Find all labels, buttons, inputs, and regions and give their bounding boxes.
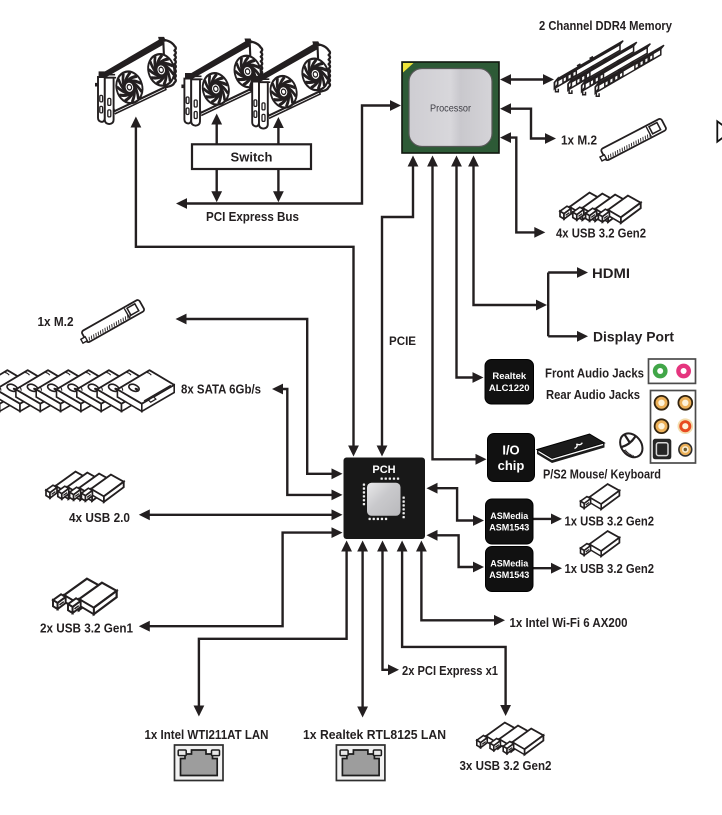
svg-text:chip: chip <box>498 458 525 473</box>
GPU card 2 (graphics card with two fans) <box>181 39 264 126</box>
Realtek ALC1220 chip <box>485 360 534 405</box>
DDR4 DIMM 2 <box>568 42 637 93</box>
HDMI label <box>592 265 630 281</box>
ASMedia ASM1543 chip 2 <box>486 547 534 592</box>
8x SATA 6Gb/s label <box>181 383 261 397</box>
svg-text:Display Port: Display Port <box>593 329 674 345</box>
processor pin1 yellow corner marker <box>403 63 414 73</box>
wire processor to Realtek ALC1220 <box>451 156 483 383</box>
3x USB 3.2 Gen2 label <box>460 759 552 773</box>
wire PCH to ASMedia 1 <box>427 483 485 526</box>
1x M.2 left label <box>38 315 74 329</box>
1x Intel WTI211AT LAN label <box>145 728 269 742</box>
wire PCH to Wi-Fi <box>416 541 505 626</box>
4x USB 2.0 sticks <box>46 472 124 502</box>
svg-text:Switch: Switch <box>231 150 273 165</box>
wire SATA to PCH <box>272 384 343 501</box>
2x PCI Express x1 label <box>402 664 498 678</box>
1x M.2 right label <box>561 134 597 148</box>
1x Intel Wi-Fi 6 AX200 label <box>510 616 628 630</box>
wire HDMI DP bracket vertical <box>547 273 549 337</box>
8x SATA drives stack <box>0 370 174 411</box>
wire ASMedia1 to 1x USB 3.2 Gen2 <box>534 514 563 525</box>
DDR4 DIMM 4 (front) <box>595 45 664 96</box>
wire to HDMI (arrow) <box>548 267 588 278</box>
svg-text:1x USB 3.2 Gen2: 1x USB 3.2 Gen2 <box>565 515 655 529</box>
svg-text:Processor: Processor <box>430 103 471 115</box>
wire GPU1 to PCH top pin1 <box>131 117 359 457</box>
M.2 SSD left drawing <box>78 299 145 345</box>
wire to Display Port (arrow) <box>548 331 588 342</box>
wire PCH to 2x PCI Express x1 <box>377 541 399 676</box>
Realtek LAN port icon <box>336 745 385 781</box>
wire processor to HDMI/DP junction <box>468 156 547 311</box>
PCH label <box>372 464 395 476</box>
svg-text:1x Realtek RTL8125 LAN: 1x Realtek RTL8125 LAN <box>303 728 446 742</box>
svg-text:1x Intel WTI211AT LAN: 1x Intel WTI211AT LAN <box>145 728 269 742</box>
front audio jacks panel <box>649 359 696 383</box>
PS2 mouse drawing <box>615 429 647 462</box>
wire PCH to Intel LAN <box>194 541 353 717</box>
PCH chip block <box>344 458 426 540</box>
GPU card 3 (graphics card with two fans) <box>249 41 332 128</box>
2x USB 3.2 Gen1 label <box>40 622 133 636</box>
ASMedia ASM1543 chip 1 <box>486 499 534 544</box>
wire processor to DDR4 memory (double arrow) <box>500 74 554 85</box>
PCI Express Bus label <box>206 210 299 224</box>
svg-text:ASMedia: ASMedia <box>490 511 529 521</box>
svg-text:3x USB 3.2 Gen2: 3x USB 3.2 Gen2 <box>460 759 552 773</box>
svg-text:I/O: I/O <box>502 442 519 457</box>
4x USB 3.2 Gen2 sticks <box>560 193 641 223</box>
svg-text:P/S2 Mouse/ Keyboard: P/S2 Mouse/ Keyboard <box>543 468 661 482</box>
wire 2x USB 3.2 Gen1 to PCH <box>139 527 343 631</box>
1x USB 3.2 Gen2 stick upper <box>581 484 620 509</box>
1x USB 3.2 Gen2 upper label <box>565 515 655 529</box>
svg-text:8x SATA 6Gb/s: 8x SATA 6Gb/s <box>181 383 261 397</box>
svg-text:1x M.2: 1x M.2 <box>561 134 597 148</box>
P/S2 Mouse/ Keyboard label <box>543 468 661 482</box>
svg-text:1x Intel Wi-Fi 6 AX200: 1x Intel Wi-Fi 6 AX200 <box>510 616 628 630</box>
1x Realtek RTL8125 LAN label <box>303 728 446 742</box>
svg-text:Front Audio Jacks: Front Audio Jacks <box>545 367 644 381</box>
Intel LAN port icon <box>175 745 224 781</box>
wire M.2 left to PCH <box>176 314 343 480</box>
rear audio jacks panel <box>651 391 696 464</box>
DDR4 DIMM 3 <box>582 44 651 95</box>
cursor triangle marker at right edge <box>717 121 722 141</box>
svg-text:HDMI: HDMI <box>592 265 630 281</box>
I/O chip <box>488 434 535 482</box>
Processor label <box>430 103 471 115</box>
svg-text:ASMedia: ASMedia <box>490 558 529 568</box>
svg-text:PCIE: PCIE <box>389 334 416 348</box>
4x USB 2.0 label <box>69 511 130 525</box>
svg-text:PCH: PCH <box>372 464 395 476</box>
processor outer green package <box>402 62 499 153</box>
svg-text:Realtek: Realtek <box>492 371 527 382</box>
wire 4x USB 2.0 to PCH <box>139 509 343 520</box>
Switch box <box>192 144 311 169</box>
svg-text:Rear Audio Jacks: Rear Audio Jacks <box>546 388 640 402</box>
Display Port label <box>593 329 674 345</box>
1x USB 3.2 Gen2 stick lower <box>581 531 620 556</box>
wire processor to M.2 right <box>500 103 556 144</box>
svg-text:2 Channel DDR4 Memory: 2 Channel DDR4 Memory <box>539 18 673 33</box>
wire switch to GPU3 (up arrow) <box>273 117 284 144</box>
wire processor to 4x USB 3.2 Gen2 <box>500 132 545 238</box>
svg-text:ASM1543: ASM1543 <box>489 570 529 580</box>
svg-text:1x USB 3.2 Gen2: 1x USB 3.2 Gen2 <box>565 562 655 576</box>
wire processor to PCH top pin2 <box>377 156 419 457</box>
2 Channel DDR4 Memory label <box>539 18 673 33</box>
3x USB 3.2 Gen2 sticks <box>477 723 544 755</box>
wire processor to I/O chip <box>427 156 486 465</box>
svg-text:4x USB 2.0: 4x USB 2.0 <box>69 511 130 525</box>
Front Audio Jacks label <box>545 367 644 381</box>
GPU card 1 (graphics card with two fans) <box>95 37 178 124</box>
PCIE label <box>389 334 416 348</box>
1x USB 3.2 Gen2 lower label <box>565 562 655 576</box>
PS2 keyboard drawing <box>537 434 605 463</box>
Rear Audio Jacks label <box>546 388 640 402</box>
wire switch to PCI bus (down arrow right) <box>273 169 284 202</box>
2x USB 3.2 Gen1 sticks <box>53 579 117 615</box>
DDR4 DIMM 1 <box>555 41 624 92</box>
svg-text:1x M.2: 1x M.2 <box>38 315 74 329</box>
wire ASMedia2 to 1x USB 3.2 Gen2 <box>534 563 563 574</box>
svg-text:ALC1220: ALC1220 <box>489 383 530 394</box>
svg-text:ASM1543: ASM1543 <box>489 522 529 532</box>
wire PCH to ASMedia 2 <box>427 530 485 573</box>
wire PCI Express bus to Processor <box>176 100 401 209</box>
wire switch to PCI bus (down arrow left) <box>211 169 222 202</box>
svg-text:4x USB 3.2 Gen2: 4x USB 3.2 Gen2 <box>556 227 646 241</box>
4x USB 3.2 Gen2 label <box>556 227 646 241</box>
wire switch to GPU2 (up arrow) <box>211 114 222 145</box>
M.2 SSD right drawing <box>597 118 667 163</box>
svg-text:2x PCI Express x1: 2x PCI Express x1 <box>402 664 498 678</box>
processor inner die <box>409 69 492 147</box>
svg-text:PCI Express Bus: PCI Express Bus <box>206 210 299 224</box>
wire PCH to Realtek LAN <box>357 541 368 718</box>
svg-text:2x USB 3.2 Gen1: 2x USB 3.2 Gen1 <box>40 622 133 636</box>
Switch label <box>231 150 273 165</box>
PCH inner die with pins <box>363 478 405 521</box>
wire PCH to 3x USB 3.2 Gen2 <box>397 541 511 717</box>
